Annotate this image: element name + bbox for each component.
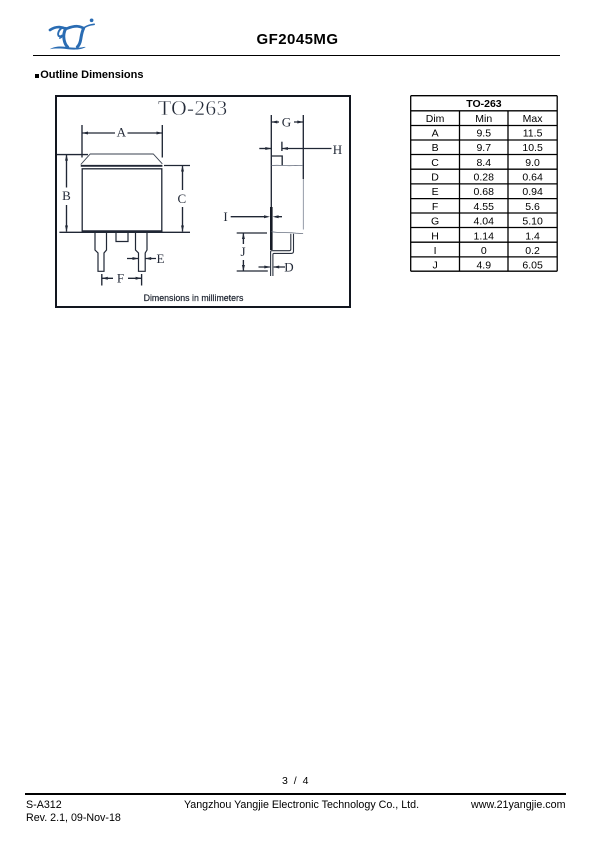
arrowheads xyxy=(65,121,303,280)
side view: body bottom edge xyxy=(272,232,304,234)
front view: dim A dimension line xyxy=(82,132,163,134)
front view: dim A extension lines xyxy=(82,125,162,158)
svg-text:4.9: 4.9 xyxy=(476,259,491,271)
dim D arrows xyxy=(264,266,270,269)
front view: body bottom thick edge xyxy=(82,230,163,232)
table vertical lines xyxy=(410,95,557,271)
side view: body top edge xyxy=(272,164,304,166)
section heading Outline Dimensions xyxy=(35,74,39,78)
header rule xyxy=(33,55,560,57)
svg-text:1.14: 1.14 xyxy=(473,230,494,242)
svg-text:C: C xyxy=(177,191,186,206)
side view: tab back edge (thin upper) xyxy=(270,115,272,207)
svg-text:0.28: 0.28 xyxy=(473,171,494,183)
front view: dim B top extension line xyxy=(57,154,88,156)
svg-text:11.5: 11.5 xyxy=(522,127,542,139)
svg-text:TO-263: TO-263 xyxy=(158,96,227,120)
side view: dim J dimension line xyxy=(242,233,244,271)
side view: front face extension line xyxy=(302,115,304,179)
svg-text:Dimensions in millimeters: Dimensions in millimeters xyxy=(144,293,244,303)
svg-text:Min: Min xyxy=(475,112,492,124)
svg-text:F: F xyxy=(431,200,437,212)
svg-text:I: I xyxy=(223,209,227,224)
svg-text:J: J xyxy=(432,259,437,271)
logo bottom swoosh xyxy=(50,46,86,49)
svg-text:A: A xyxy=(431,127,438,139)
side view: dim H tick xyxy=(281,142,283,151)
svg-text:0.2: 0.2 xyxy=(525,244,540,256)
svg-text:9.0: 9.0 xyxy=(525,156,540,168)
side view: lead bend inner xyxy=(271,234,291,276)
footer revision xyxy=(26,812,121,824)
logo S descender 2 xyxy=(77,28,83,46)
logo dot xyxy=(90,18,94,22)
svg-text:10.5: 10.5 xyxy=(522,142,543,154)
svg-text:0.64: 0.64 xyxy=(522,171,543,183)
side view: lead bend outer xyxy=(273,234,294,276)
front view: dim F dimension line xyxy=(102,277,142,279)
front view: dim C top extension line xyxy=(164,165,190,167)
svg-text:I: I xyxy=(433,244,436,256)
svg-text:B: B xyxy=(431,142,438,154)
side view: dim D arrow lines xyxy=(259,266,286,268)
drawing frame xyxy=(56,96,350,307)
front view: right lead xyxy=(136,232,148,271)
side view: tab back edge (thick lower) xyxy=(270,207,273,250)
front view: dim B dimension line xyxy=(66,155,68,232)
front view: body top thick edge xyxy=(81,165,163,167)
side view: dim I dimension line xyxy=(231,216,282,218)
svg-text:D: D xyxy=(431,171,439,183)
svg-text:E: E xyxy=(157,251,165,266)
svg-text:0.94: 0.94 xyxy=(522,186,543,198)
page number xyxy=(0,775,592,787)
svg-text:0: 0 xyxy=(480,244,486,256)
dim B arrows xyxy=(65,155,68,161)
footer website xyxy=(471,799,565,811)
table horizontal lines xyxy=(410,95,557,271)
logo left hook descender xyxy=(58,28,62,36)
footer doc number xyxy=(26,799,62,811)
side view: dim J top extension line xyxy=(237,232,267,234)
dim J arrows xyxy=(242,233,245,239)
svg-text:9.7: 9.7 xyxy=(476,142,491,154)
front view: seating baseline extension xyxy=(59,231,190,233)
dimension table xyxy=(410,95,559,273)
side view: dim G dimension line xyxy=(271,121,303,123)
logo left hook tip xyxy=(60,36,63,38)
side view: front face lower (light) xyxy=(302,179,304,230)
svg-text:6.05: 6.05 xyxy=(522,259,543,271)
svg-text:0.68: 0.68 xyxy=(473,186,494,198)
front view: dim E arrow lines xyxy=(127,258,156,260)
side view: dim J bottom extension line xyxy=(237,270,268,272)
front view: dim C dimension line xyxy=(182,166,184,232)
svg-text:Dim: Dim xyxy=(425,112,444,124)
svg-text:D: D xyxy=(284,259,293,274)
svg-text:5.10: 5.10 xyxy=(522,215,543,227)
svg-text:4.04: 4.04 xyxy=(473,215,494,227)
dim C arrows xyxy=(181,166,184,172)
footer company xyxy=(0,799,595,811)
svg-text:8.4: 8.4 xyxy=(476,156,491,168)
side view: tab step xyxy=(272,156,283,165)
footer rule xyxy=(25,793,566,794)
package outline drawing xyxy=(55,95,351,308)
side view: dim H left arrow line xyxy=(259,148,271,150)
svg-text:H: H xyxy=(431,230,439,242)
svg-text:G: G xyxy=(282,114,291,129)
logo Yangjie mark xyxy=(47,14,99,54)
front view: body rectangle xyxy=(82,169,162,232)
front view: center tab xyxy=(116,232,128,241)
svg-text:1.4: 1.4 xyxy=(525,230,540,242)
front view: body chamfer trapezoid xyxy=(81,154,163,165)
svg-text:F: F xyxy=(117,271,124,286)
svg-text:G: G xyxy=(431,215,439,227)
svg-text:5.6: 5.6 xyxy=(525,200,540,212)
dim A arrows xyxy=(82,132,88,135)
dim H arrows xyxy=(265,147,271,150)
svg-text:E: E xyxy=(431,186,438,198)
svg-text:TO-263: TO-263 xyxy=(466,98,502,110)
svg-text:H: H xyxy=(333,142,342,157)
svg-text:C: C xyxy=(431,156,439,168)
logo middle arc xyxy=(67,26,84,28)
svg-text:A: A xyxy=(117,125,127,140)
svg-text:Max: Max xyxy=(522,112,543,124)
logo left top arc xyxy=(50,27,66,30)
front view: dim F extension ticks xyxy=(102,274,142,286)
svg-text:J: J xyxy=(240,244,245,259)
dim I arrows xyxy=(264,215,270,218)
dimension letters xyxy=(62,114,342,285)
side view: dim H right line to label xyxy=(282,148,332,150)
logo S descender 1 xyxy=(64,29,68,47)
dim G arrows xyxy=(271,121,277,124)
logo j tail xyxy=(84,24,95,28)
front view: left lead xyxy=(95,232,107,271)
svg-text:9.5: 9.5 xyxy=(476,127,491,139)
dim F arrows xyxy=(102,277,108,280)
svg-text:B: B xyxy=(62,188,71,203)
title GF2045MG xyxy=(0,31,595,48)
svg-text:4.55: 4.55 xyxy=(473,200,494,212)
dim E arrows xyxy=(133,257,139,260)
